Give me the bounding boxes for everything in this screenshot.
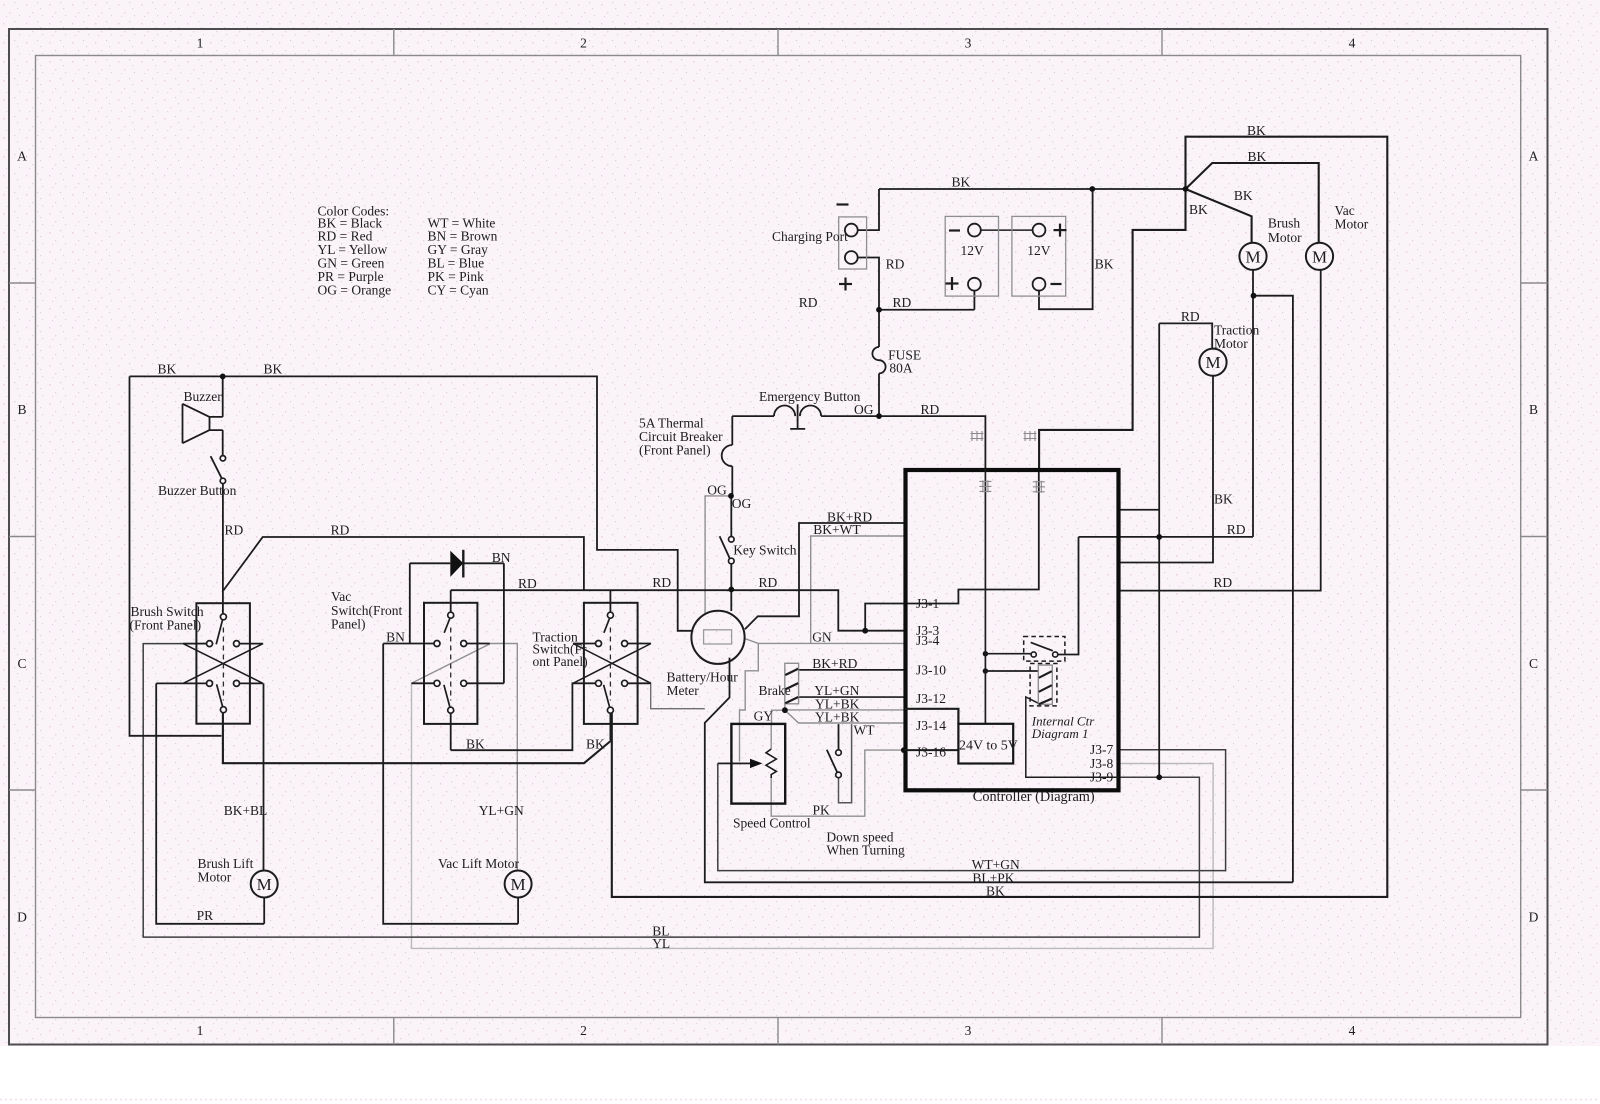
- svg-text:RD: RD: [331, 522, 350, 537]
- svg-text:Buzzer Button: Buzzer Button: [158, 483, 237, 498]
- svg-text:B: B: [17, 402, 26, 417]
- svg-text:BN: BN: [492, 550, 511, 565]
- svg-text:Brake: Brake: [759, 683, 791, 698]
- svg-text:80A: 80A: [889, 360, 913, 375]
- svg-text:RD: RD: [1213, 575, 1232, 590]
- svg-text:Motor: Motor: [1335, 216, 1369, 231]
- svg-text:12V: 12V: [1027, 243, 1051, 258]
- svg-text:BK: BK: [1234, 188, 1253, 203]
- svg-text:A: A: [17, 149, 27, 164]
- svg-text:BK: BK: [264, 362, 283, 377]
- svg-text:PK: PK: [813, 802, 831, 817]
- svg-text:YL+GN: YL+GN: [479, 803, 524, 818]
- svg-text:BK: BK: [1247, 123, 1266, 138]
- svg-text:J3-9: J3-9: [1090, 770, 1113, 785]
- svg-text:YL: YL: [652, 936, 670, 951]
- svg-text:B: B: [1529, 402, 1538, 417]
- svg-text:Vac: Vac: [331, 589, 351, 604]
- svg-text:M: M: [1312, 247, 1327, 266]
- svg-text:Emergency Button: Emergency Button: [759, 389, 861, 404]
- svg-text:RD: RD: [893, 295, 912, 310]
- svg-text:BK: BK: [952, 174, 971, 189]
- svg-text:(Front Panel): (Front Panel): [639, 443, 711, 458]
- svg-text:BK: BK: [1248, 149, 1267, 164]
- svg-text:J3-4: J3-4: [916, 633, 939, 648]
- svg-text:J3-1: J3-1: [916, 596, 939, 611]
- svg-text:RD: RD: [799, 295, 818, 310]
- svg-text:WT: WT: [854, 723, 876, 738]
- svg-text:J3-14: J3-14: [916, 718, 946, 733]
- svg-text:Controller (Diagram): Controller (Diagram): [973, 789, 1095, 805]
- svg-text:3: 3: [965, 1023, 972, 1038]
- svg-text:RD: RD: [886, 256, 905, 271]
- svg-text:12V: 12V: [961, 243, 985, 258]
- svg-text:BK: BK: [158, 362, 177, 377]
- svg-text:3: 3: [965, 36, 972, 51]
- svg-text:RD: RD: [518, 576, 537, 591]
- svg-text:OG: OG: [732, 496, 752, 511]
- svg-text:RD: RD: [225, 522, 244, 537]
- svg-text:ont Panel): ont Panel): [533, 654, 588, 669]
- svg-text:J3-12: J3-12: [916, 691, 946, 706]
- svg-text:D: D: [17, 910, 27, 925]
- svg-text:Meter: Meter: [667, 683, 700, 698]
- svg-text:BK: BK: [1095, 256, 1114, 271]
- svg-text:M: M: [1245, 247, 1260, 266]
- svg-text:A: A: [1529, 149, 1539, 164]
- svg-text:C: C: [17, 656, 26, 671]
- svg-text:BK: BK: [1214, 491, 1233, 506]
- svg-text:4: 4: [1349, 1023, 1356, 1038]
- svg-text:24V to 5V: 24V to 5V: [959, 739, 1018, 754]
- svg-text:Motor: Motor: [1268, 230, 1302, 245]
- svg-text:BK: BK: [986, 883, 1005, 898]
- svg-text:Motor: Motor: [1214, 336, 1248, 351]
- svg-text:Panel): Panel): [331, 616, 366, 631]
- svg-text:RD: RD: [759, 575, 778, 590]
- svg-text:BK+BL: BK+BL: [224, 803, 268, 818]
- svg-text:2: 2: [580, 1023, 587, 1038]
- svg-text:J3-10: J3-10: [916, 662, 946, 677]
- svg-text:BK: BK: [586, 736, 605, 751]
- svg-text:BK+RD: BK+RD: [812, 656, 857, 671]
- svg-text:RD: RD: [652, 575, 671, 590]
- svg-text:J3-7: J3-7: [1090, 742, 1113, 757]
- svg-text:PR: PR: [197, 908, 214, 923]
- svg-text:Speed Control: Speed Control: [733, 816, 811, 831]
- svg-text:RD: RD: [921, 402, 940, 417]
- svg-text:Motor: Motor: [198, 869, 232, 884]
- svg-text:4: 4: [1349, 36, 1356, 51]
- svg-text:D: D: [1529, 910, 1539, 925]
- svg-text:Buzzer: Buzzer: [184, 389, 223, 404]
- svg-text:M: M: [511, 875, 526, 894]
- svg-text:Diagram 1: Diagram 1: [1031, 726, 1089, 741]
- svg-text:BK+WT: BK+WT: [813, 522, 861, 537]
- svg-text:1: 1: [197, 1023, 204, 1038]
- svg-text:1: 1: [197, 36, 204, 51]
- svg-text:CY = Cyan: CY = Cyan: [428, 282, 489, 297]
- svg-text:BK: BK: [466, 736, 485, 751]
- svg-text:Brush: Brush: [1268, 216, 1301, 231]
- svg-text:GY: GY: [754, 708, 774, 723]
- svg-text:OG: OG: [854, 402, 874, 417]
- svg-text:RD: RD: [1181, 309, 1200, 324]
- svg-text:Key Switch: Key Switch: [733, 542, 797, 557]
- svg-text:GN: GN: [812, 629, 832, 644]
- svg-text:BN: BN: [386, 630, 405, 645]
- svg-text:M: M: [1205, 353, 1220, 372]
- svg-text:OG = Orange: OG = Orange: [318, 282, 392, 297]
- svg-text:RD: RD: [1227, 522, 1246, 537]
- svg-text:M: M: [257, 875, 272, 894]
- svg-text:OG: OG: [707, 482, 727, 497]
- svg-text:Vac Lift Motor: Vac Lift Motor: [438, 856, 519, 871]
- svg-text:BK: BK: [1189, 202, 1208, 217]
- svg-text:(Front Panel): (Front Panel): [130, 617, 202, 632]
- svg-text:J3-16: J3-16: [916, 745, 946, 760]
- svg-text:When Turning: When Turning: [826, 843, 905, 858]
- svg-text:Charging Port: Charging Port: [772, 229, 848, 244]
- svg-text:C: C: [1529, 656, 1538, 671]
- svg-text:2: 2: [580, 36, 587, 51]
